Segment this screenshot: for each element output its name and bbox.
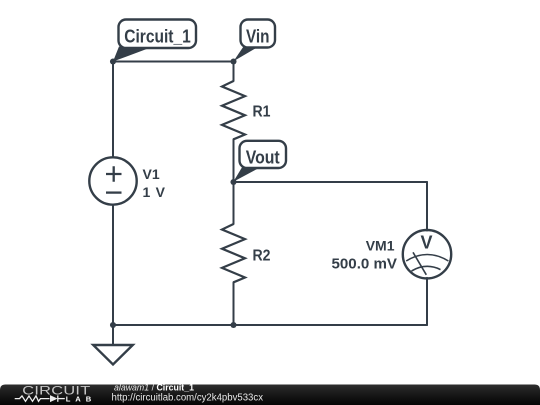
svg-text:VM1: VM1 — [366, 238, 395, 254]
wire mid R1-Vout — [233, 139, 235, 182]
node Vout dot — [230, 179, 236, 185]
node Vin dot — [230, 58, 236, 64]
svg-text:R2: R2 — [253, 247, 271, 264]
flag Vout — [233, 141, 286, 182]
wire voltmeter bottom — [426, 278, 428, 325]
resistor R2 — [222, 224, 245, 282]
svg-text:LAB: LAB — [66, 394, 92, 403]
wire ground lead — [112, 325, 114, 345]
footer logo diode triangle — [50, 395, 58, 402]
flag Circuit_1 — [113, 20, 196, 62]
node bottom-mid dot — [230, 322, 236, 328]
node Circuit_1 dot — [110, 58, 116, 64]
svg-text:V: V — [420, 233, 432, 253]
footer logo resistor-diode glyph — [15, 395, 65, 401]
wire voltmeter top — [426, 182, 428, 231]
voltage source V1 — [89, 157, 136, 204]
wire mid R2-bottom — [233, 282, 235, 325]
wire bottom rail — [113, 324, 427, 326]
svg-text:V1: V1 — [143, 166, 160, 182]
wire left upper — [112, 62, 114, 158]
flag Vin — [234, 20, 276, 62]
wire top rail — [113, 61, 234, 63]
voltmeter VM1 — [403, 230, 451, 278]
wire Vout horizontal — [234, 181, 428, 183]
resistor R1 — [222, 81, 245, 139]
svg-text:Vin: Vin — [246, 27, 270, 47]
svg-text:500.0 mV: 500.0 mV — [332, 257, 398, 273]
footer bar — [0, 385, 540, 405]
ground — [93, 345, 133, 365]
wire mid top — [233, 62, 235, 82]
node bottom-left dot — [110, 322, 116, 328]
svg-text:Vout: Vout — [246, 148, 280, 168]
wire left lower — [112, 205, 114, 325]
svg-text:1 V: 1 V — [143, 184, 166, 200]
svg-text:R1: R1 — [253, 103, 271, 120]
svg-text:Circuit_1: Circuit_1 — [124, 27, 191, 47]
svg-text:http://circuitlab.com/cy2k4pbv: http://circuitlab.com/cy2k4pbv533cx — [112, 393, 264, 404]
wire mid Vout-R2 — [233, 182, 235, 224]
